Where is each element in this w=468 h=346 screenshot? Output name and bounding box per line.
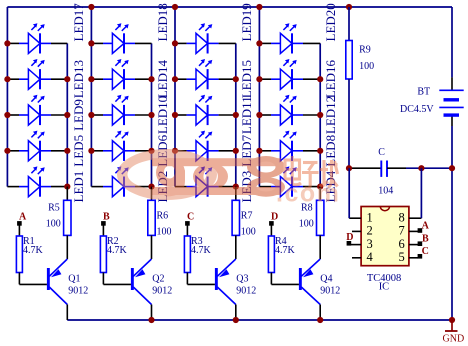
resistor R2 [100, 236, 106, 273]
LED4 [259, 166, 303, 196]
svg-text:LED16: LED16 [323, 60, 338, 99]
node cathode rail junction col2 row3 [148, 112, 154, 118]
node ground rail right corner [449, 317, 455, 323]
svg-text:C: C [422, 246, 429, 257]
wire LED4 cathode stub [303, 186, 320, 188]
svg-text:4.7K: 4.7K [191, 245, 212, 256]
svg-text:4.7K: 4.7K [107, 245, 128, 256]
wire top supply bus [7, 6, 452, 8]
node C input terminal [185, 221, 190, 226]
wire LED20 cathode stub [303, 42, 320, 44]
node anode rail junction col1 row3 [4, 112, 10, 118]
wire LED8 cathode stub [303, 150, 320, 152]
svg-text:LED9: LED9 [71, 99, 86, 131]
svg-text:LED20: LED20 [323, 3, 338, 41]
node anode rail junction col2 row2 [88, 76, 94, 82]
LED12 [259, 95, 303, 125]
node top bus junction col4 [256, 4, 262, 10]
svg-text:R5: R5 [48, 203, 60, 214]
wire cathode rail to R5 [66, 187, 68, 201]
wire LED5 cathode stub [51, 150, 67, 152]
wire Q1 collector to ground rail [66, 305, 68, 321]
resistor R9 [346, 41, 352, 80]
LED16 [259, 59, 303, 89]
svg-text:5: 5 [399, 250, 405, 264]
node anode rail junction col4 row1 [256, 40, 262, 46]
wire right supply rail [451, 7, 453, 77]
node anode rail junction col3 row2 [172, 76, 178, 82]
wire Q3 collector to ground rail [235, 305, 237, 321]
wire IC pin 4 stub [352, 257, 361, 259]
node anode rail junction col1 row2 [4, 76, 10, 82]
svg-text:9012: 9012 [68, 285, 88, 296]
svg-text:4: 4 [367, 250, 374, 264]
wire LED12 cathode stub [303, 114, 320, 116]
wire IC pin 1 lead [349, 217, 361, 219]
resistor R8 [317, 200, 324, 235]
svg-text:Q4: Q4 [320, 274, 332, 285]
node top bus junction col2 [88, 4, 94, 10]
svg-text:100: 100 [359, 61, 374, 72]
svg-text:.com: .com [276, 180, 340, 208]
node anode rail junction col3 row1 [172, 40, 178, 46]
svg-text:LED11: LED11 [239, 96, 254, 134]
wire R5 to Q1 emitter [66, 235, 68, 259]
svg-text:104: 104 [378, 185, 393, 196]
node anode rail junction col2 row3 [88, 112, 94, 118]
svg-text:Q3: Q3 [236, 274, 248, 285]
svg-text:LED12: LED12 [323, 96, 338, 134]
svg-text:LED15: LED15 [239, 60, 254, 98]
wire LED17 cathode stub [51, 42, 67, 44]
wire LED18 cathode stub [135, 42, 152, 44]
resistor R5 [64, 200, 71, 235]
op-amp U1 IC TC4008 body [361, 207, 409, 266]
wire R3 to Q3 base [186, 273, 188, 285]
transistor Q4 9012 [299, 268, 302, 290]
wire R4 to Q4 base [270, 273, 272, 285]
node cathode rail junction col1 row4 [64, 148, 70, 154]
wire node D to R4 [270, 225, 272, 236]
wire LED column 3 cathode rail [235, 43, 237, 186]
wire LED16 cathode stub [303, 78, 320, 80]
node B at IC pin 6 [418, 241, 423, 246]
node B input terminal [101, 221, 106, 226]
watermark logo [117, 149, 340, 208]
wire R1 to Q1 base [18, 273, 20, 285]
wire IC pin 3 lead [349, 244, 361, 246]
svg-text:100: 100 [299, 219, 314, 230]
node ground rail junction Q3 [233, 317, 239, 323]
wire LED15 cathode stub [219, 78, 236, 80]
svg-text:3: 3 [367, 237, 373, 251]
wire pin 1 to capacitor node [348, 168, 350, 218]
node pin8 riser junction [418, 165, 424, 171]
svg-text:9012: 9012 [320, 285, 340, 296]
LED3 [175, 166, 219, 196]
LED8 [259, 131, 303, 161]
svg-text:LED1: LED1 [71, 171, 86, 203]
node cathode rail junction col2 row5 [148, 184, 154, 190]
node cathode rail junction col3 row5 [233, 184, 239, 190]
ground GND symbol [451, 320, 453, 331]
wire top bus to R9 [348, 7, 350, 41]
wire LED2 cathode stub [135, 186, 152, 188]
svg-text:4.7K: 4.7K [23, 245, 44, 256]
wire cathode rail to R7 [235, 187, 237, 201]
svg-text:7: 7 [399, 224, 405, 238]
LED10 [91, 95, 135, 125]
LED14 [91, 59, 135, 89]
node A at IC pin 7 [418, 228, 423, 233]
svg-text:100: 100 [157, 227, 172, 238]
wire capacitor right lead [387, 167, 406, 169]
wire R2 to Q2 base [102, 273, 104, 285]
wire LED1 cathode stub [51, 186, 67, 188]
node cathode rail junction col2 row2 [148, 76, 154, 82]
wire IC pin 5 lead [409, 257, 418, 259]
node cathode rail junction col3 row3 [233, 112, 239, 118]
node anode rail junction col4 row4 [256, 148, 262, 154]
wire pin 8 to capacitor node [420, 168, 422, 218]
svg-text:GND: GND [443, 334, 465, 345]
LED15 [175, 59, 219, 89]
LED20 [259, 23, 303, 53]
node capacitor left junction [346, 165, 352, 171]
wire cathode rail to R6 [151, 187, 153, 201]
node ground rail junction Q4 [317, 317, 323, 323]
node anode rail junction col2 row1 [88, 40, 94, 46]
svg-text:R7: R7 [241, 210, 253, 221]
wire Q4 collector to ground rail [319, 305, 321, 321]
node cathode rail junction col4 row4 [317, 148, 323, 154]
svg-text:LED13: LED13 [71, 60, 86, 98]
wire Q2 collector to ground rail [151, 305, 153, 321]
wire LED column 1 anode rail [6, 7, 8, 187]
LED6 [91, 131, 135, 161]
wire R9 to capacitor node [348, 79, 350, 168]
wire bottom ground rail [67, 319, 452, 321]
svg-text:9012: 9012 [152, 285, 172, 296]
svg-text:C: C [187, 211, 194, 222]
wire IC pin 6 lead [409, 244, 418, 246]
wire LED column 2 cathode rail [151, 43, 153, 186]
wire cathode rail to R8 [319, 187, 321, 201]
svg-text:A: A [422, 220, 430, 231]
node cathode rail junction col1 row5 [64, 184, 70, 190]
wire IC pin 7 lead [409, 230, 418, 232]
svg-text:LED5: LED5 [71, 135, 86, 167]
svg-text:Q1: Q1 [68, 274, 80, 285]
svg-text:BT: BT [417, 87, 430, 98]
wire R6 to Q2 emitter [151, 235, 153, 259]
IC notch [380, 207, 389, 211]
LED19 [175, 23, 219, 53]
LED1 [7, 166, 51, 196]
svg-text:D: D [271, 211, 278, 222]
LED7 [175, 131, 219, 161]
node cathode rail junction col1 row3 [64, 112, 70, 118]
wire LED13 cathode stub [51, 78, 67, 80]
node right rail capacitor junction [449, 165, 455, 171]
svg-text:LED14: LED14 [155, 60, 170, 99]
svg-text:2: 2 [367, 224, 373, 238]
resistor R4 [268, 236, 274, 273]
wire LED3 cathode stub [219, 186, 236, 188]
node cathode rail junction col1 row2 [64, 76, 70, 82]
svg-text:LED19: LED19 [239, 3, 254, 41]
node anode rail junction col1 row4 [4, 148, 10, 154]
wire LED column 1 cathode rail [66, 43, 68, 186]
node cathode rail junction col2 row4 [148, 148, 154, 154]
wire LED9 cathode stub [51, 114, 67, 116]
svg-text:B: B [422, 234, 429, 245]
wire LED column 4 anode rail [258, 7, 260, 187]
wire node C to R3 [186, 225, 188, 236]
svg-text:4.7K: 4.7K [275, 245, 296, 256]
node anode rail junction col3 row4 [172, 148, 178, 154]
LED5 [7, 131, 51, 161]
svg-text:R6: R6 [157, 210, 169, 221]
svg-text:A: A [19, 211, 27, 222]
wire node A to R1 [18, 225, 20, 236]
wire capacitor left lead [349, 167, 381, 169]
resistor R3 [184, 236, 190, 273]
wire LED11 cathode stub [219, 114, 236, 116]
node cathode rail junction col3 row2 [233, 76, 239, 82]
node anode rail junction col2 row4 [88, 148, 94, 154]
LED13 [7, 59, 51, 89]
node anode rail junction col1 row1 [4, 40, 10, 46]
svg-text:100: 100 [46, 219, 61, 230]
svg-text:Q2: Q2 [152, 274, 164, 285]
node anode rail junction col4 row3 [256, 112, 262, 118]
wire LED column 3 anode rail [174, 7, 176, 187]
wire LED10 cathode stub [135, 114, 152, 116]
svg-text:LED18: LED18 [155, 3, 170, 41]
node D input terminal [269, 221, 274, 226]
svg-text:1: 1 [367, 210, 373, 224]
node cathode rail junction col4 row5 [317, 184, 323, 190]
svg-text:IC: IC [379, 281, 390, 292]
svg-text:DC4.5V: DC4.5V [400, 104, 434, 115]
wire LED6 cathode stub [135, 150, 152, 152]
wire LED column 4 cathode rail [319, 43, 321, 186]
resistor R1 [16, 236, 22, 273]
LED11 [175, 95, 219, 125]
svg-text:D: D [346, 232, 353, 243]
transistor Q2 9012 [131, 268, 134, 290]
wire LED7 cathode stub [219, 150, 236, 152]
resistor R7 [232, 200, 239, 235]
svg-text:LED10: LED10 [155, 96, 170, 134]
LED17 [7, 23, 51, 53]
transistor Q1 9012 [47, 268, 50, 290]
node C at IC pin 5 [418, 254, 423, 259]
node cathode rail junction col3 row4 [233, 148, 239, 154]
svg-text:B: B [103, 211, 110, 222]
node A input terminal [17, 221, 22, 226]
node cathode rail junction col4 row2 [317, 76, 323, 82]
wire LED19 cathode stub [219, 42, 236, 44]
LED18 [91, 23, 135, 53]
wire LED column 2 anode rail [90, 7, 92, 187]
node ground rail junction Q2 [148, 317, 154, 323]
svg-text:6: 6 [399, 237, 405, 251]
node top bus junction col3 [172, 4, 178, 10]
svg-text:R9: R9 [359, 45, 371, 56]
node anode rail junction col3 row3 [172, 112, 178, 118]
svg-text:LED17: LED17 [71, 3, 86, 42]
wire node B to R2 [102, 225, 104, 236]
wire LED14 cathode stub [135, 78, 152, 80]
capacitor C 104 [380, 161, 382, 177]
svg-text:C: C [378, 147, 385, 158]
LED2 [91, 166, 135, 196]
svg-text:100: 100 [241, 227, 256, 238]
svg-text:8: 8 [399, 210, 405, 224]
wire R7 to Q3 emitter [235, 235, 237, 259]
svg-text:9012: 9012 [236, 285, 256, 296]
node cathode rail junction col4 row3 [317, 112, 323, 118]
battery BT DC4.5V [439, 89, 463, 91]
transistor Q3 9012 [215, 268, 218, 290]
wire R8 to Q4 emitter [319, 235, 321, 259]
node top bus junction R9 [346, 4, 352, 10]
wire IC pin 2 stub [352, 230, 361, 232]
wire IC pin 8 lead [409, 217, 422, 219]
resistor R6 [148, 200, 155, 235]
node D at IC pin 3 [347, 241, 352, 246]
LED9 [7, 95, 51, 125]
node anode rail junction col4 row2 [256, 76, 262, 82]
